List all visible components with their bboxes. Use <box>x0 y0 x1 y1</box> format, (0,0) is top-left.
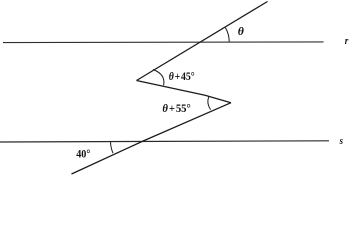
svg-text:θ + 55°: θ + 55° <box>162 103 191 115</box>
svg-text:s: s <box>339 136 343 147</box>
svg-text:r: r <box>345 36 349 47</box>
svg-text:θ: θ <box>238 24 244 38</box>
svg-text:θ + 45°: θ + 45° <box>169 71 195 83</box>
svg-text:40°: 40° <box>76 149 91 161</box>
